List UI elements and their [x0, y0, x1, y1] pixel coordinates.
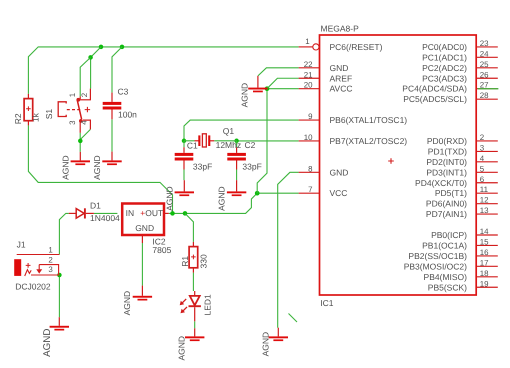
wire VCC junction to pin 7 — [257, 192, 298, 194]
svg-text:PD0(RXD): PD0(RXD) — [427, 136, 467, 146]
svg-text:AGND: AGND — [217, 186, 227, 211]
pin number 1 (S1) — [68, 93, 77, 97]
pin 22 GND — [299, 60, 349, 73]
pin 20 AVCC — [299, 81, 353, 94]
pin 7 VCC — [299, 185, 348, 198]
value 1k — [31, 112, 41, 122]
svg-text:25: 25 — [480, 60, 489, 69]
svg-text:PB5(SCK): PB5(SCK) — [428, 282, 467, 292]
svg-text:IC1: IC1 — [320, 298, 334, 308]
svg-text:PC5(ADC5/SCL): PC5(ADC5/SCL) — [403, 94, 467, 104]
LED LED1 — [180, 291, 201, 321]
wire net stub on pin 27 — [478, 88, 499, 90]
svg-text:AGND: AGND — [60, 155, 70, 180]
pin number 3 (S1) — [68, 120, 77, 125]
wire stub (floating diagonal) — [289, 314, 298, 323]
ground AGND (S1) — [71, 152, 90, 165]
svg-text:1: 1 — [305, 37, 309, 46]
wire RESET rail from pin 1 to R2 — [28, 47, 298, 94]
svg-text:22: 22 — [304, 60, 313, 69]
svg-text:AGND: AGND — [42, 329, 53, 357]
ground AGND (IC2) — [133, 286, 152, 301]
capacitor C2 — [227, 147, 246, 169]
label R2 — [13, 113, 23, 124]
svg-text:PD7(AIN1): PD7(AIN1) — [426, 209, 467, 219]
svg-text:12Mhz: 12Mhz — [216, 140, 242, 150]
svg-text:AVCC: AVCC — [330, 84, 353, 94]
value 1N4004 — [90, 213, 120, 223]
wire AVCC junction to pin 20 — [267, 88, 299, 90]
node junction 5V rail / R2 branch — [170, 211, 175, 216]
svg-text:1N4004: 1N4004 — [90, 213, 120, 223]
svg-text:GND: GND — [135, 223, 154, 233]
svg-text:6: 6 — [480, 175, 485, 184]
svg-text:R2: R2 — [13, 113, 23, 124]
svg-text:PD1(TXD): PD1(TXD) — [428, 146, 467, 156]
svg-text:PD6(AIN0): PD6(AIN0) — [426, 199, 467, 209]
ground AGND (C3) — [102, 152, 121, 165]
label C1 — [187, 141, 198, 151]
wire C2 top — [236, 141, 238, 147]
svg-text:5: 5 — [480, 164, 485, 173]
svg-text:2: 2 — [80, 93, 89, 97]
label +OUT — [140, 208, 163, 218]
wire D1 cathode to IC2 IN — [94, 212, 118, 214]
pin 8 GND — [299, 164, 349, 177]
pin 10 PB7(XTAL2/TOSC2) — [299, 133, 408, 146]
svg-text:PD4(XCK/T0): PD4(XCK/T0) — [415, 178, 467, 188]
svg-text:1: 1 — [48, 245, 52, 254]
pin number 2 (J1) — [48, 255, 52, 264]
wire C2 bottom to AGND — [236, 170, 238, 181]
wire crystal left lead — [184, 140, 195, 142]
node junction 5V rail / R1 branch — [183, 211, 188, 216]
ground AGND (C2) — [227, 180, 246, 196]
pin number 2 (S1) — [80, 93, 89, 97]
svg-text:IN: IN — [126, 208, 135, 218]
svg-text:D1: D1 — [90, 200, 101, 210]
crystal Q1 — [195, 134, 215, 147]
value 33pF (C2) — [242, 161, 261, 171]
wire C3 bottom to AGND — [111, 119, 113, 151]
pin 23 PC0(ADC0) — [422, 39, 498, 52]
resistor R2 — [24, 94, 33, 126]
wire AREF pin 21 to junction — [267, 78, 299, 88]
switch S1 — [58, 89, 91, 133]
label AGND (LED1) — [176, 336, 186, 361]
wire XTAL2 pin 10 to crystal/C2 node — [237, 140, 299, 142]
svg-text:1: 1 — [68, 93, 77, 97]
svg-text:33pF: 33pF — [193, 161, 212, 171]
svg-text:PB6(XTAL1/TOSC1): PB6(XTAL1/TOSC1) — [330, 115, 408, 125]
svg-text:3: 3 — [48, 265, 53, 274]
pin number 3 (J1) — [48, 265, 53, 274]
value 7805 — [152, 245, 171, 255]
ground AGND (GND pin 8) — [269, 328, 288, 341]
svg-text:19: 19 — [480, 279, 489, 288]
pin 1 PC6(/RESET) — [299, 37, 383, 52]
svg-text:C1: C1 — [187, 141, 198, 151]
wire J1 pins 2/3 down to AGND — [58, 275, 60, 317]
value 33pF (C1) — [193, 161, 212, 171]
svg-text:26: 26 — [480, 70, 489, 79]
node J1 ground junction — [57, 273, 62, 278]
svg-text:DCJ0202: DCJ0202 — [15, 282, 51, 292]
pin 13 PD7(AIN1) — [426, 206, 498, 219]
svg-text:4: 4 — [480, 154, 485, 163]
pin 19 PB5(SCK) — [428, 279, 498, 292]
pin 21 AREF — [299, 70, 353, 83]
label IC2 — [152, 237, 166, 247]
wire crystal right lead — [214, 140, 236, 142]
svg-text:R1: R1 — [180, 256, 190, 267]
node junction at S1 branch split — [88, 55, 93, 60]
wire LED1 cathode to AGND — [194, 321, 196, 328]
svg-text:GND: GND — [330, 167, 349, 177]
svg-text:21: 21 — [304, 70, 313, 79]
resistor R1 — [189, 242, 198, 273]
svg-text:PC6(/RESET): PC6(/RESET) — [330, 42, 383, 52]
svg-text:16: 16 — [480, 248, 489, 257]
label Q1 — [223, 126, 235, 136]
svg-text:PD2(INT0): PD2(INT0) — [426, 157, 467, 167]
svg-text:13: 13 — [480, 206, 489, 215]
wire S1 pins 3+4 to AGND — [80, 129, 90, 152]
label GND (IC2) — [135, 223, 154, 233]
node S1 ground junction — [78, 139, 83, 144]
svg-text:11: 11 — [480, 185, 488, 194]
svg-text:AGND: AGND — [122, 291, 132, 316]
svg-text:C3: C3 — [118, 87, 129, 97]
label IN — [126, 208, 135, 218]
label AGND (C3) — [92, 155, 102, 180]
svg-text:28: 28 — [480, 91, 489, 100]
wire C1 bottom to AGND — [183, 170, 185, 181]
svg-text:AGND: AGND — [92, 155, 102, 180]
IC IC1 MEGA8-P body with origin cross — [320, 35, 477, 295]
label AGND (GND pin 8) — [261, 332, 271, 357]
label C2 — [245, 140, 256, 150]
svg-text:10: 10 — [304, 133, 313, 142]
wire C1 top — [183, 141, 185, 147]
wire VCC junction up to AVCC/AREF junction — [257, 89, 267, 194]
wire IC2 GND down to AGND — [141, 243, 143, 286]
pin 17 PB3(MOSI/OC2) — [404, 258, 498, 271]
svg-text:+OUT: +OUT — [140, 208, 163, 218]
pin 18 PB4(MISO) — [424, 269, 498, 282]
svg-text:VCC: VCC — [330, 188, 348, 198]
wire R1 bottom to LED1 — [192, 273, 194, 291]
svg-text:15: 15 — [480, 237, 489, 246]
svg-text:20: 20 — [304, 81, 313, 90]
pin number 4 (S1) — [80, 120, 89, 125]
wire 5V rail to R1 — [185, 213, 193, 242]
label AGND (J1) — [42, 329, 53, 357]
svg-text:18: 18 — [480, 269, 489, 278]
pin 12 PD6(AIN0) — [426, 196, 498, 209]
svg-text:J1: J1 — [17, 240, 26, 250]
svg-text:PB7(XTAL2/TOSC2): PB7(XTAL2/TOSC2) — [330, 136, 408, 146]
node VCC junction — [255, 191, 260, 196]
label AGND (GND pin 22) — [240, 83, 250, 108]
pin 5 PD3(INT1) — [426, 164, 497, 177]
voltage regulator IC2 7805 — [122, 204, 169, 244]
svg-text:PC2(ADC2): PC2(ADC2) — [422, 63, 467, 73]
svg-text:C2: C2 — [245, 140, 256, 150]
label J1 — [17, 240, 26, 250]
pin 4 PD2(INT0) — [426, 154, 497, 167]
ground AGND (C1) — [175, 180, 194, 196]
pin 24 PC1(ADC1) — [422, 49, 498, 62]
wire J1 pin 1 up to D1 anode — [59, 213, 68, 254]
svg-text:9: 9 — [308, 112, 313, 121]
pin 9 PB6(XTAL1/TOSC1) — [299, 112, 408, 125]
svg-text:100n: 100n — [118, 109, 137, 119]
pin 16 PB2(SS/OC1B) — [408, 248, 497, 261]
svg-text:AGND: AGND — [261, 332, 271, 357]
label LED1 — [203, 294, 213, 316]
svg-text:PB4(MISO): PB4(MISO) — [424, 272, 468, 282]
pin 3 PD1(TXD) — [428, 143, 498, 156]
svg-text:S1: S1 — [44, 109, 54, 120]
pin 6 PD4(XCK/T0) — [415, 175, 498, 188]
value 100n — [118, 109, 137, 119]
label C3 — [118, 87, 129, 97]
label MEGA8-P — [321, 23, 360, 33]
pin 25 PC2(ADC2) — [422, 60, 498, 73]
svg-text:PB0(ICP): PB0(ICP) — [431, 230, 467, 240]
svg-text:PB2(SS/OC1B): PB2(SS/OC1B) — [408, 251, 467, 261]
pin 27 PC4(ADC4/SDA) — [402, 81, 498, 94]
svg-text:7: 7 — [308, 185, 312, 194]
wire RESET to S1 pin 2 — [91, 47, 101, 89]
svg-text:33pF: 33pF — [242, 161, 261, 171]
svg-text:23: 23 — [480, 39, 489, 48]
value 12Mhz — [216, 140, 242, 150]
connector J1 DCJ0202 power jack — [14, 255, 59, 277]
capacitor C1 — [175, 147, 194, 169]
pin number 1 (J1) — [48, 245, 52, 254]
pin 26 PC3(ADC3) — [422, 70, 498, 83]
ground AGND (LED1) — [185, 328, 204, 341]
label AGND (C1) — [164, 186, 174, 211]
svg-text:AGND: AGND — [164, 186, 174, 211]
pin 15 PB1(OC1A) — [422, 237, 498, 250]
wire XTAL1 pin 9 to crystal/C1 node — [184, 120, 299, 141]
svg-text:GND: GND — [330, 63, 349, 73]
svg-text:LED1: LED1 — [203, 294, 213, 316]
pin 28 PC5(ADC5/SCL) — [403, 91, 498, 104]
svg-text:4: 4 — [80, 120, 89, 125]
svg-text:PC3(ADC3): PC3(ADC3) — [422, 73, 467, 83]
ground AGND (GND pin 22) — [248, 76, 267, 92]
label AGND (S1) — [60, 155, 70, 180]
label R1 — [180, 256, 190, 267]
svg-text:2: 2 — [48, 255, 52, 264]
svg-text:PD5(T1): PD5(T1) — [435, 188, 467, 198]
svg-text:PC1(ADC1): PC1(ADC1) — [422, 52, 467, 62]
svg-text:3: 3 — [480, 143, 485, 152]
capacitor C3 — [103, 93, 122, 120]
svg-text:1k: 1k — [31, 112, 41, 122]
svg-text:AGND: AGND — [240, 83, 250, 108]
wire 5V rail from IC2 OUT to VCC junction — [169, 193, 257, 213]
value 330 — [199, 254, 209, 268]
diode D1 1N4004 — [69, 208, 94, 218]
svg-text:330: 330 — [199, 254, 209, 268]
label AGND (C2) — [217, 186, 227, 211]
wire R2 bottom to 5V rail — [28, 125, 172, 213]
svg-text:MEGA8-P: MEGA8-P — [321, 23, 360, 33]
svg-text:PB1(OC1A): PB1(OC1A) — [422, 240, 467, 250]
label IC1 — [320, 298, 334, 308]
pin 14 PB0(ICP) — [431, 227, 498, 240]
pin 2 PD0(RXD) — [427, 133, 498, 146]
wire RESET to S1 pin 1 — [80, 57, 90, 96]
svg-text:PC0(ADC0): PC0(ADC0) — [422, 42, 467, 52]
value DCJ0202 — [15, 282, 51, 292]
svg-text:2: 2 — [480, 133, 484, 142]
node XTAL1 junction — [182, 139, 187, 144]
node XTAL2 junction — [234, 139, 239, 144]
svg-text:AREF: AREF — [330, 73, 353, 83]
wire RESET to C3 — [112, 47, 122, 93]
svg-text:8: 8 — [308, 164, 313, 173]
svg-text:PD3(INT1): PD3(INT1) — [426, 167, 467, 177]
svg-text:17: 17 — [480, 258, 489, 267]
pin 11 PD5(T1) — [435, 185, 498, 198]
svg-text:PC4(ADC4/SDA): PC4(ADC4/SDA) — [402, 84, 467, 94]
svg-text:AGND: AGND — [176, 336, 186, 361]
ground AGND (J1) — [50, 317, 69, 330]
node AVCC/AREF junction — [265, 86, 270, 91]
node junction on RESET rail (C3 branch) — [120, 45, 125, 50]
label D1 — [90, 200, 101, 210]
svg-text:Q1: Q1 — [223, 126, 235, 136]
svg-text:12: 12 — [480, 196, 489, 205]
svg-text:7805: 7805 — [152, 245, 171, 255]
label S1 — [44, 109, 54, 120]
svg-text:PB3(MOSI/OC2): PB3(MOSI/OC2) — [404, 261, 467, 271]
svg-text:24: 24 — [480, 49, 489, 58]
svg-text:3: 3 — [68, 120, 77, 125]
svg-text:14: 14 — [480, 227, 489, 236]
wire GND pin 8 down to AGND — [278, 172, 299, 327]
label AGND (IC2) — [122, 291, 132, 316]
node junction on RESET rail (S1 branch) — [99, 45, 104, 50]
wire GND pin 22 to AGND — [258, 68, 299, 76]
